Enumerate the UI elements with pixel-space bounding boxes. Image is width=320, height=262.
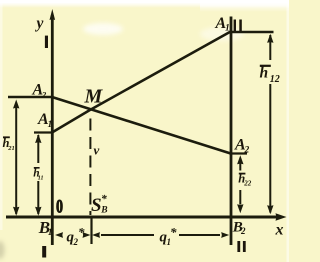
svg-text:1: 1	[48, 228, 53, 238]
svg-text:M: M	[84, 86, 104, 108]
h11 top arrowhead	[35, 134, 41, 143]
svg-text:1: 1	[48, 120, 53, 130]
h12 top arrowhead	[267, 34, 273, 43]
top white scan band	[0, 0, 289, 8]
section mark I bottom	[42, 246, 46, 258]
section mark I top	[45, 36, 48, 48]
dimension q2 left arrowhead	[55, 232, 63, 238]
section II vertical line	[230, 17, 233, 246]
h21 top arrowhead	[13, 100, 19, 109]
label h12 with overbar	[260, 65, 280, 86]
h12 bottom arrowhead	[267, 205, 273, 214]
svg-text:x: x	[275, 222, 284, 239]
svg-text:0: 0	[56, 195, 63, 217]
dimension h12 line lower	[269, 84, 271, 213]
tick at A1 left level	[34, 131, 54, 133]
label h21 with overbar	[3, 136, 15, 152]
svg-text:1: 1	[225, 24, 230, 34]
label h11 with overbar	[33, 168, 43, 182]
tick at A2 right level	[229, 152, 247, 154]
h11 bottom arrowhead	[35, 207, 41, 216]
svg-text:12: 12	[270, 74, 280, 85]
x-axis arrowhead	[276, 213, 287, 221]
y-axis arrowhead	[50, 9, 56, 20]
white smudge top right	[200, 27, 244, 41]
dimension q1 right arrowhead	[221, 232, 229, 238]
svg-text:2: 2	[240, 226, 246, 236]
label h22 with overbar	[238, 172, 252, 188]
h22 top arrowhead	[237, 155, 243, 164]
dimension q1 line left part	[101, 234, 154, 236]
left horizontal line at A2 level	[8, 96, 54, 99]
top-right horizontal line at A1 level	[229, 31, 273, 34]
h21 bottom arrowhead	[13, 207, 19, 216]
dashed vertical line v through M	[89, 119, 91, 216]
svg-text:2: 2	[244, 146, 250, 156]
svg-text:v: v	[94, 143, 100, 158]
dimension h21 line	[15, 103, 17, 214]
svg-text:*: *	[78, 225, 85, 240]
svg-text:h: h	[260, 65, 269, 82]
line A1-A1 ascending	[52, 32, 231, 133]
h22 bottom arrowhead	[237, 204, 243, 213]
white smudge top middle	[83, 23, 123, 35]
svg-text:*: *	[170, 225, 177, 240]
dimension h11 line lower	[37, 181, 39, 214]
dimension h11 line upper	[37, 135, 39, 163]
svg-text:21: 21	[7, 145, 15, 152]
x-axis	[6, 216, 277, 219]
dimension q1 left arrowhead	[92, 232, 100, 238]
grey smudge bottom-left edge	[0, 241, 5, 259]
tick below axis at S_B	[90, 218, 92, 244]
y-axis	[51, 15, 54, 245]
svg-text:B: B	[100, 206, 107, 216]
svg-text:*: *	[101, 194, 107, 206]
dimension h22 line	[239, 164, 241, 171]
svg-text:22: 22	[243, 179, 252, 187]
line A2-A2 descending	[52, 97, 231, 154]
dimension h12 line upper	[269, 35, 271, 60]
section mark II top right	[234, 20, 236, 32]
svg-text:2: 2	[41, 89, 47, 99]
svg-text:11: 11	[38, 176, 44, 182]
section mark II bottom	[237, 241, 240, 252]
svg-text:S: S	[91, 195, 102, 216]
dimension q1 line right part	[179, 234, 220, 236]
dimension q2 right arrowhead	[83, 232, 91, 238]
svg-text:y: y	[35, 15, 44, 32]
